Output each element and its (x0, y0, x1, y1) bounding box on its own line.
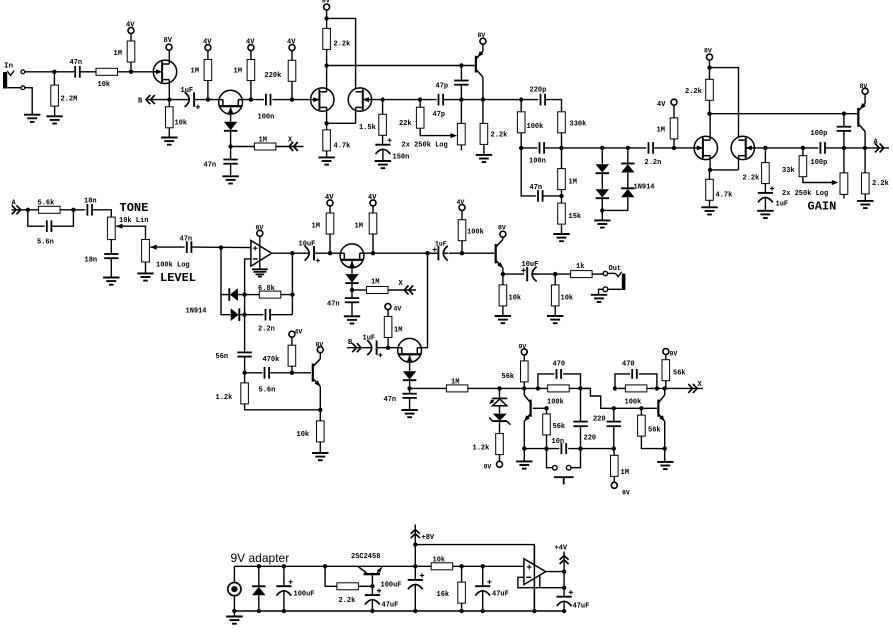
svg-text:2.2n: 2.2n (258, 326, 275, 334)
svg-text:100k: 100k (547, 399, 564, 407)
svg-text:8V: 8V (478, 32, 486, 39)
svg-text:100p: 100p (811, 159, 828, 167)
svg-text:100k Log: 100k Log (156, 262, 190, 270)
svg-text:8V: 8V (860, 83, 868, 90)
svg-text:9V: 9V (670, 351, 678, 358)
svg-text:4V: 4V (126, 22, 135, 30)
svg-text:10k: 10k (98, 81, 111, 89)
svg-text:2.2k: 2.2k (491, 132, 508, 140)
svg-text:4V: 4V (657, 101, 666, 109)
svg-text:4V: 4V (394, 306, 402, 313)
svg-text:1M: 1M (312, 223, 320, 231)
svg-text:47n: 47n (204, 162, 217, 170)
svg-text:4V: 4V (246, 39, 255, 47)
svg-text:10uF: 10uF (522, 261, 539, 269)
svg-text:220p: 220p (530, 87, 547, 95)
svg-text:56k: 56k (673, 370, 686, 378)
svg-text:10k: 10k (509, 295, 522, 303)
svg-text:56n: 56n (216, 353, 229, 361)
svg-text:47uF: 47uF (573, 603, 590, 611)
svg-text:4.7k: 4.7k (334, 143, 351, 151)
svg-text:2.2k: 2.2k (872, 180, 889, 188)
svg-text:16k: 16k (437, 591, 450, 599)
svg-text:100uF: 100uF (294, 591, 315, 599)
svg-text:10k Lin: 10k Lin (119, 217, 148, 225)
svg-text:1M: 1M (191, 68, 199, 76)
svg-text:47p: 47p (433, 111, 446, 119)
svg-text:220: 220 (584, 435, 597, 443)
svg-text:2.2n: 2.2n (645, 159, 662, 167)
svg-text:4.7k: 4.7k (716, 192, 733, 200)
svg-text:1M: 1M (394, 327, 402, 335)
svg-text:1M: 1M (234, 68, 242, 76)
svg-text:47p: 47p (436, 83, 449, 91)
svg-text:4V: 4V (457, 199, 465, 206)
svg-text:220k: 220k (265, 72, 282, 80)
svg-text:1M: 1M (114, 50, 122, 58)
svg-text:2x 250k Log: 2x 250k Log (782, 190, 828, 198)
svg-text:10uF: 10uF (299, 241, 316, 249)
svg-text:In: In (4, 63, 14, 71)
svg-text:Out: Out (609, 265, 622, 273)
svg-text:100p: 100p (811, 130, 828, 138)
svg-text:2.2k: 2.2k (685, 88, 702, 96)
svg-text:1.5k: 1.5k (359, 124, 376, 132)
svg-text:470k: 470k (263, 356, 280, 364)
svg-text:10k: 10k (297, 431, 310, 439)
svg-text:1M: 1M (657, 127, 665, 135)
svg-text:4V: 4V (295, 329, 303, 336)
svg-text:2.2k: 2.2k (339, 597, 356, 605)
svg-text:8V: 8V (498, 225, 506, 232)
svg-text:1M: 1M (355, 223, 363, 231)
svg-text:LEVEL: LEVEL (160, 271, 196, 285)
svg-text:47n: 47n (327, 301, 340, 309)
svg-text:47n: 47n (180, 236, 193, 244)
svg-text:18n: 18n (84, 198, 97, 206)
svg-text:TONE: TONE (120, 201, 149, 215)
svg-text:GAIN: GAIN (808, 200, 837, 214)
svg-text:+4V: +4V (555, 545, 568, 553)
svg-text:1M: 1M (451, 379, 459, 387)
svg-text:4V: 4V (287, 39, 296, 47)
svg-text:100k: 100k (625, 399, 642, 407)
svg-text:10k: 10k (175, 120, 188, 128)
svg-text:1M: 1M (569, 179, 577, 187)
svg-text:100n: 100n (258, 114, 275, 122)
svg-text:56k: 56k (648, 427, 661, 435)
svg-text:8V: 8V (322, 0, 330, 4)
svg-text:5.6k: 5.6k (38, 200, 55, 208)
svg-text:4V: 4V (325, 194, 334, 202)
svg-text:56k: 56k (502, 373, 515, 381)
svg-text:100uF: 100uF (381, 582, 402, 590)
svg-text:22k: 22k (399, 120, 412, 128)
svg-text:2.2k: 2.2k (334, 41, 351, 49)
svg-text:1uF: 1uF (435, 241, 447, 248)
svg-text:1.2k: 1.2k (216, 394, 233, 402)
svg-text:1M: 1M (621, 469, 629, 477)
svg-text:100n: 100n (529, 158, 546, 166)
svg-text:1M: 1M (259, 137, 267, 145)
svg-text:47n: 47n (384, 396, 397, 404)
svg-text:4V: 4V (368, 194, 377, 202)
svg-text:2.2M: 2.2M (61, 96, 78, 104)
svg-text:9V: 9V (622, 490, 630, 497)
svg-text:15k: 15k (569, 213, 582, 221)
svg-text:10k: 10k (433, 557, 446, 565)
svg-text:1N914: 1N914 (634, 184, 655, 192)
svg-text:9V adapter: 9V adapter (231, 551, 290, 565)
svg-text:1uF: 1uF (363, 335, 376, 343)
svg-text:470: 470 (622, 361, 635, 369)
svg-text:1k: 1k (576, 263, 584, 271)
svg-text:220: 220 (593, 416, 606, 424)
svg-text:18n: 18n (85, 257, 98, 265)
svg-text:2x 250k Log: 2x 250k Log (402, 142, 448, 150)
svg-text:1M: 1M (371, 279, 379, 287)
svg-text:8V: 8V (256, 224, 264, 231)
svg-text:8V: 8V (316, 342, 324, 349)
svg-text:10k: 10k (561, 295, 574, 303)
svg-text:47uF: 47uF (492, 591, 509, 599)
svg-text:8V: 8V (164, 37, 173, 45)
svg-text:470: 470 (553, 361, 566, 369)
svg-text:47uF: 47uF (382, 602, 399, 610)
svg-text:5.6n: 5.6n (37, 239, 54, 247)
svg-text:100k: 100k (527, 123, 544, 131)
svg-text:4V: 4V (203, 39, 212, 47)
svg-text:47n: 47n (70, 59, 83, 67)
svg-text:1uF: 1uF (181, 87, 194, 95)
svg-text:10n: 10n (552, 438, 565, 446)
svg-text:9V: 9V (519, 344, 527, 351)
svg-text:100k: 100k (467, 229, 484, 237)
svg-text:+8V: +8V (422, 534, 435, 542)
svg-text:2.2k: 2.2k (743, 175, 760, 183)
svg-text:1N914: 1N914 (186, 308, 207, 316)
svg-text:9V: 9V (484, 464, 492, 471)
svg-text:56k: 56k (553, 423, 566, 431)
svg-text:8V: 8V (704, 48, 712, 55)
svg-text:1.2k: 1.2k (473, 445, 490, 453)
svg-text:330k: 330k (570, 121, 587, 129)
svg-text:33k: 33k (782, 167, 795, 175)
svg-text:150n: 150n (393, 154, 410, 162)
svg-text:47n: 47n (530, 184, 543, 192)
svg-text:1uF: 1uF (776, 201, 789, 209)
svg-text:6.8k: 6.8k (258, 285, 275, 293)
svg-text:2SC2458: 2SC2458 (351, 553, 380, 561)
svg-text:5.6n: 5.6n (259, 387, 276, 395)
